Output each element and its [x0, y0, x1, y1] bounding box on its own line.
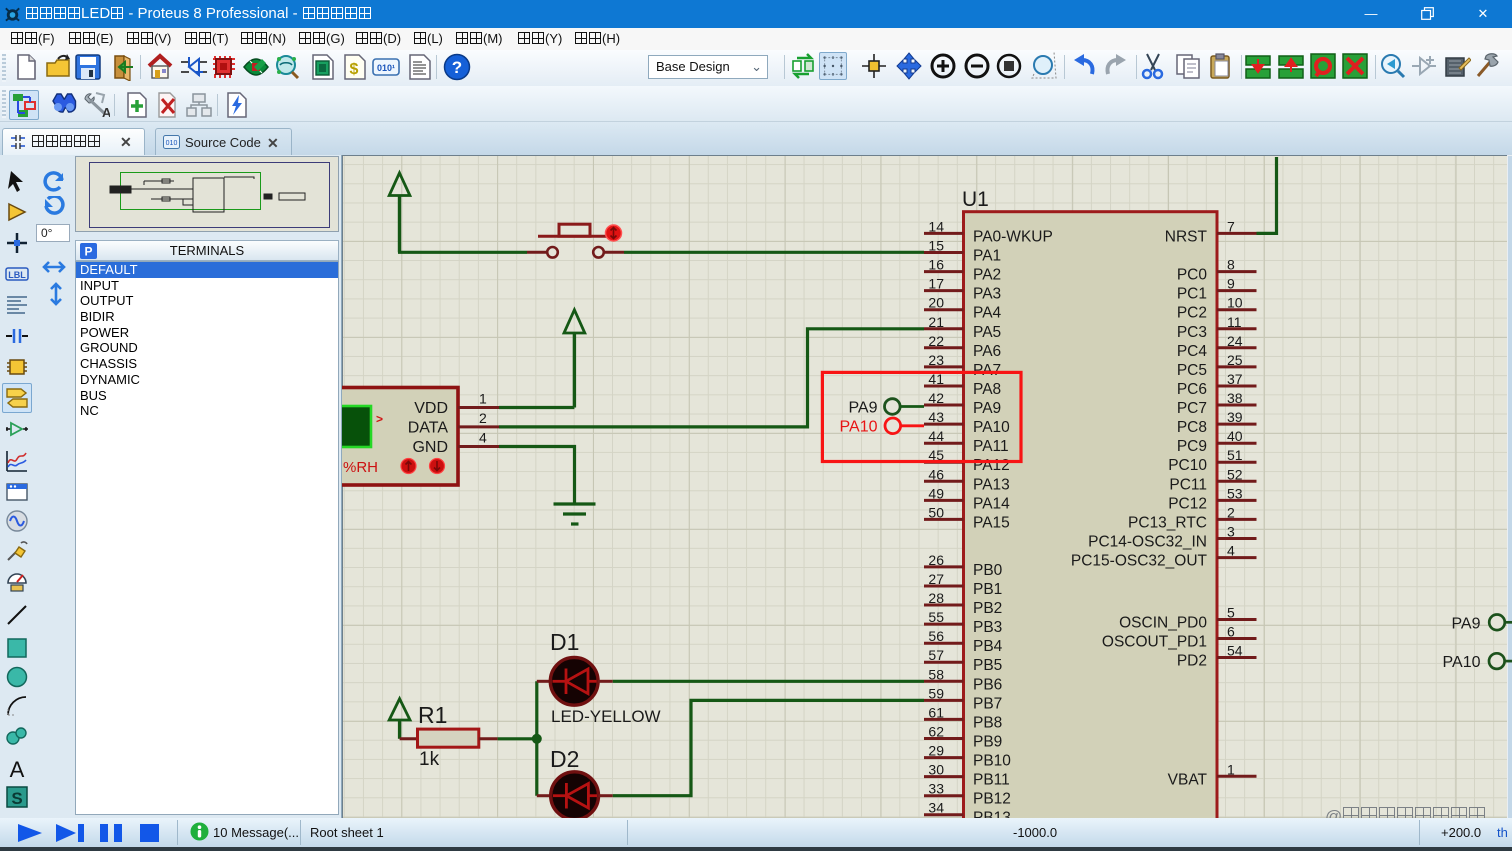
svg-text:15: 15: [928, 238, 944, 254]
U1 pin 26 (PB0): [924, 552, 1003, 579]
svg-text:17: 17: [928, 276, 944, 292]
U1 pin 42 (PA9): [924, 390, 1001, 417]
svg-text:3: 3: [1227, 524, 1235, 540]
button marker: [606, 225, 622, 241]
U1 pin 8 (PC0): [1177, 257, 1257, 284]
LED D2: [537, 772, 613, 820]
U1 pin 3 (PC14-OSC32_IN): [1088, 524, 1256, 551]
junction node: [532, 734, 542, 744]
svg-text:55: 55: [928, 609, 944, 625]
left panel: [0, 155, 342, 818]
svg-text:33: 33: [928, 781, 944, 797]
svg-text:61: 61: [928, 704, 944, 720]
U1 pin 49 (PA14): [924, 485, 1010, 512]
U1 pin 21 (PA5): [924, 314, 1001, 341]
U1 pin 59 (PB7): [924, 685, 1002, 712]
svg-text:PC12: PC12: [1168, 495, 1207, 512]
svg-text:62: 62: [928, 724, 944, 740]
svg-text:GND: GND: [412, 439, 448, 456]
svg-text:57: 57: [928, 647, 944, 663]
rotate column: [42, 170, 66, 194]
power terminal VCC (top left): [389, 173, 410, 252]
U1 pin 1 (VBAT): [1168, 761, 1257, 788]
svg-text:PB10: PB10: [973, 753, 1011, 770]
terminal PA10 (right): [1443, 653, 1512, 671]
U1 pin 20 (PA4): [924, 295, 1002, 322]
svg-text:OSCOUT_PD1: OSCOUT_PD1: [1102, 634, 1207, 651]
svg-text:56: 56: [928, 628, 944, 644]
svg-text:5: 5: [1227, 605, 1235, 621]
U1 pin 41 (PA8): [924, 371, 1001, 398]
U1 pin 57 (PB5): [924, 647, 1002, 674]
svg-text:24: 24: [1227, 333, 1243, 349]
svg-text:PB6: PB6: [973, 676, 1002, 693]
U1 pin 10 (PC2): [1177, 295, 1257, 322]
wire button to U1 pin 15: [624, 251, 924, 254]
U1 pin 61 (PB8): [924, 704, 1002, 731]
svg-text:21: 21: [928, 314, 944, 330]
svg-text:53: 53: [1227, 485, 1243, 501]
svg-text:PB2: PB2: [973, 600, 1002, 617]
op chip U1 STM32 body: [964, 212, 1218, 822]
svg-text:PA14: PA14: [973, 495, 1010, 512]
wire D2 to U1 PB7: [613, 700, 924, 795]
U1 pin 54 (PD2): [1177, 643, 1257, 670]
svg-text:PB8: PB8: [973, 714, 1002, 731]
svg-text:PB1: PB1: [973, 581, 1002, 598]
svg-text:PC14-OSC32_IN: PC14-OSC32_IN: [1088, 534, 1207, 551]
svg-text:PB11: PB11: [973, 772, 1010, 789]
svg-text:PA9: PA9: [973, 400, 1001, 417]
svg-text:PB5: PB5: [973, 657, 1002, 674]
svg-text:PC7: PC7: [1177, 400, 1207, 417]
svg-text:30: 30: [928, 762, 944, 778]
svg-text:PC10: PC10: [1168, 457, 1207, 474]
svg-text:A: A: [10, 757, 25, 781]
U1 pin 7 (NRST): [1165, 218, 1257, 245]
svg-text:20: 20: [928, 295, 944, 311]
svg-text:PC6: PC6: [1177, 381, 1207, 398]
wire DHT11 VDD to power: [499, 406, 574, 409]
svg-text:PC15-OSC32_OUT: PC15-OSC32_OUT: [1071, 553, 1208, 570]
resistor R1: [400, 729, 498, 747]
svg-text:PA9: PA9: [1451, 615, 1480, 632]
wire VCC to button: [398, 251, 527, 254]
tab bar: [0, 122, 1512, 155]
svg-text:PD2: PD2: [1177, 653, 1207, 670]
svg-text:%RH: %RH: [343, 459, 378, 476]
U1 pin 39 (PC8): [1177, 409, 1257, 436]
overview minimap: [75, 156, 339, 232]
svg-text:PA2: PA2: [973, 267, 1001, 284]
svg-text:VDD: VDD: [414, 400, 448, 417]
svg-text:1: 1: [479, 391, 487, 407]
svg-text:29: 29: [928, 743, 944, 759]
ground symbol: [554, 504, 596, 524]
svg-text:PC0: PC0: [1177, 267, 1208, 284]
status bar: [0, 818, 1512, 847]
U1 pin 9 (PC1): [1177, 276, 1257, 303]
svg-text:1k: 1k: [419, 749, 440, 770]
svg-text:10: 10: [1227, 295, 1243, 311]
DHT11 sensor U2: [330, 388, 458, 486]
svg-text:S: S: [11, 789, 22, 808]
U1 pin 22 (PA6): [924, 333, 1001, 360]
wire junction vertical D1-D2: [535, 681, 538, 795]
svg-text:P: P: [84, 245, 92, 259]
svg-text:11: 11: [1227, 314, 1242, 330]
svg-text:43: 43: [928, 409, 944, 425]
svg-text:14: 14: [928, 218, 944, 234]
U1 pin 46 (PA13): [924, 466, 1010, 493]
svg-text:NRST: NRST: [1165, 228, 1208, 245]
svg-text:42: 42: [928, 390, 944, 406]
power terminal VCC (R1): [389, 699, 410, 739]
svg-text:PA8: PA8: [973, 381, 1001, 398]
svg-text:PA11: PA11: [973, 438, 1009, 455]
toolbar row 2: [0, 86, 1512, 122]
svg-text:44: 44: [928, 428, 944, 444]
svg-text:54: 54: [1227, 643, 1243, 659]
svg-text:OSCIN_PD0: OSCIN_PD0: [1119, 615, 1207, 632]
U1 pin 14 (PA0-WKUP): [924, 218, 1053, 245]
svg-text:PC9: PC9: [1177, 438, 1207, 455]
svg-text:PA10: PA10: [973, 419, 1010, 436]
svg-text:58: 58: [928, 666, 944, 682]
power terminal VCC (DHT11 VDD): [564, 310, 585, 408]
U1 pin 33 (PB12): [924, 781, 1011, 808]
wire R1 to junction: [498, 737, 537, 740]
svg-text:27: 27: [928, 571, 944, 587]
svg-text:PC5: PC5: [1177, 362, 1207, 379]
svg-text:LBL: LBL: [8, 270, 26, 280]
svg-text:PC8: PC8: [1177, 419, 1207, 436]
U1 pin 30 (PB11): [924, 762, 1010, 789]
svg-text:PA7: PA7: [973, 362, 1001, 379]
U1 pin 29 (PB10): [924, 743, 1011, 770]
wire D1 to U1 PB6: [613, 680, 924, 683]
LED D1: [537, 657, 613, 705]
svg-text:PC3: PC3: [1177, 324, 1207, 341]
svg-text:PB7: PB7: [973, 695, 1002, 712]
DHT11 pins 1,2,4: [458, 408, 499, 447]
U1 pin 24 (PC4): [1177, 333, 1257, 360]
svg-text:PB12: PB12: [973, 791, 1011, 808]
svg-text:DATA: DATA: [408, 419, 449, 436]
U1 pin 55 (PB3): [924, 609, 1002, 636]
U1 pin 25 (PC5): [1177, 352, 1257, 379]
terminals header: [75, 240, 339, 261]
svg-text:U1: U1: [962, 188, 989, 211]
svg-text:PC4: PC4: [1177, 343, 1208, 360]
terminals list: [75, 261, 339, 815]
svg-text:6: 6: [1227, 624, 1235, 640]
svg-text:25: 25: [1227, 352, 1243, 368]
svg-text:PC2: PC2: [1177, 305, 1207, 322]
U1 pin 37 (PC6): [1177, 371, 1257, 398]
U1 pin 4 (PC15-OSC32_OUT): [1071, 543, 1257, 570]
schematic canvas: [342, 155, 1507, 818]
svg-text:PA10: PA10: [840, 419, 878, 436]
U1 pin 44 (PA11): [924, 428, 1009, 455]
svg-text:1: 1: [1227, 761, 1235, 777]
svg-text:PA9: PA9: [848, 399, 877, 416]
svg-text:PA6: PA6: [973, 343, 1001, 360]
watermark: [1325, 807, 1486, 827]
svg-text:4: 4: [1227, 543, 1235, 559]
svg-text:50: 50: [928, 504, 944, 520]
svg-text:16: 16: [928, 257, 944, 273]
svg-text:PA13: PA13: [973, 476, 1010, 493]
svg-text:PA15: PA15: [973, 514, 1010, 531]
svg-text:40: 40: [1227, 428, 1243, 444]
svg-text:26: 26: [928, 552, 944, 568]
svg-text:2: 2: [479, 410, 487, 426]
svg-text:51: 51: [1227, 447, 1243, 463]
svg-text:4: 4: [479, 430, 487, 446]
U1 pin 34 (PB13): [924, 800, 1011, 827]
svg-text:R1: R1: [418, 702, 447, 728]
svg-text:VBAT: VBAT: [1168, 771, 1208, 788]
svg-text:PA4: PA4: [973, 305, 1002, 322]
U1 pin 16 (PA2): [924, 257, 1001, 284]
toolbar row 1: [0, 50, 1512, 86]
svg-text:PA3: PA3: [973, 286, 1001, 303]
U1 pin 2 (PC13_RTC): [1128, 504, 1256, 531]
terminal PA10 (left, selected red): [840, 418, 924, 436]
menu bar: [0, 28, 1512, 50]
DHT11 markers: [401, 459, 445, 474]
svg-text:LED-YELLOW: LED-YELLOW: [551, 707, 661, 726]
svg-text:7: 7: [1227, 218, 1235, 234]
U1 pin 28 (PB2): [924, 590, 1002, 617]
U1 pin 27 (PB1): [924, 571, 1002, 598]
svg-text:22: 22: [928, 333, 944, 349]
svg-text:PB0: PB0: [973, 562, 1003, 579]
U1 pin 52 (PC11): [1169, 466, 1256, 493]
svg-text:34: 34: [928, 800, 944, 816]
wire DHT11 GND to ground: [499, 447, 575, 505]
U1 pin 23 (PA7): [924, 352, 1001, 379]
svg-text:8: 8: [1227, 257, 1235, 273]
wire U1 NRST up: [1257, 157, 1277, 233]
U1 pin 17 (PA3): [924, 276, 1001, 303]
svg-text:38: 38: [1227, 390, 1243, 406]
svg-text:37: 37: [1227, 371, 1243, 387]
svg-text:46: 46: [928, 466, 944, 482]
svg-text:PA1: PA1: [973, 248, 1001, 265]
push button SW: [527, 224, 624, 257]
svg-text:D1: D1: [550, 629, 579, 655]
svg-text:52: 52: [1227, 466, 1243, 482]
svg-text:PB4: PB4: [973, 638, 1003, 655]
U1 pin 51 (PC10): [1168, 447, 1256, 474]
svg-text:PC13_RTC: PC13_RTC: [1128, 514, 1207, 531]
svg-text:PA12: PA12: [973, 457, 1010, 474]
svg-text:PA5: PA5: [973, 324, 1001, 341]
svg-text:D2: D2: [550, 746, 579, 772]
svg-text:9: 9: [1227, 276, 1235, 292]
svg-text:PA10: PA10: [1443, 654, 1481, 671]
svg-text:PC11: PC11: [1169, 476, 1207, 493]
svg-text:PA0-WKUP: PA0-WKUP: [973, 228, 1053, 245]
svg-text:2: 2: [1227, 504, 1235, 520]
U1 pin 50 (PA15): [924, 504, 1010, 531]
red highlight box PA9/PA10: [822, 372, 1021, 461]
U1 pin 38 (PC7): [1177, 390, 1257, 417]
U1 pin 62 (PB9): [924, 724, 1002, 751]
U1 pin 15 (PA1): [924, 238, 1001, 265]
svg-text:PB3: PB3: [973, 619, 1002, 636]
title bar: [0, 0, 1512, 28]
svg-text:PB9: PB9: [973, 734, 1002, 751]
U1 pin 53 (PC12): [1168, 485, 1256, 512]
svg-text:28: 28: [928, 590, 944, 606]
terminal PA9 (left): [848, 399, 924, 417]
U1 pin 40 (PC9): [1177, 428, 1257, 455]
U1 pin 58 (PB6): [924, 666, 1002, 693]
svg-text:>: >: [376, 412, 383, 426]
svg-text:23: 23: [928, 352, 944, 368]
U1 pin 56 (PB4): [924, 628, 1003, 655]
svg-text:PC1: PC1: [1177, 286, 1207, 303]
terminal PA9 (right): [1451, 615, 1512, 633]
U1 pin 5 (OSCIN_PD0): [1119, 605, 1256, 632]
svg-text:39: 39: [1227, 409, 1243, 425]
U1 pin 6 (OSCOUT_PD1): [1102, 624, 1257, 651]
svg-text:59: 59: [928, 685, 944, 701]
svg-text:49: 49: [928, 485, 944, 501]
wire DHT11 DATA to U1 PA5: [499, 329, 924, 427]
U1 pin 43 (PA10): [924, 409, 1010, 436]
U1 pin 11 (PC3): [1177, 314, 1257, 341]
U1 pin 45 (PA12): [924, 447, 1010, 474]
